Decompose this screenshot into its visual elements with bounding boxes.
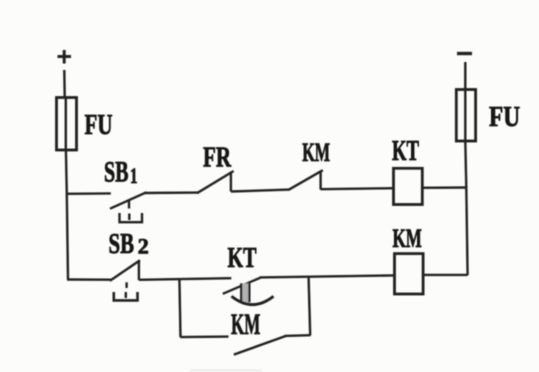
svg-text:FU: FU — [489, 102, 520, 133]
svg-text:KM: KM — [393, 223, 422, 253]
svg-text:SB: SB — [109, 228, 135, 260]
svg-text:FU: FU — [85, 109, 113, 141]
svg-text:KT: KT — [392, 135, 419, 167]
svg-text:KM: KM — [231, 308, 260, 341]
svg-text:FR: FR — [203, 141, 232, 173]
svg-text:SB: SB — [104, 156, 129, 189]
svg-text:KM: KM — [302, 138, 330, 167]
svg-text:1: 1 — [130, 163, 138, 188]
svg-text:2: 2 — [138, 234, 149, 259]
svg-text:KT: KT — [228, 242, 257, 274]
